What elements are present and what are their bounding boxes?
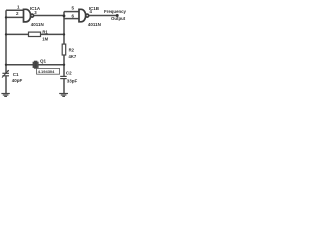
- svg-text:40pF: 40pF: [12, 78, 23, 83]
- svg-text:R2: R2: [69, 47, 75, 52]
- svg-text:4.194304: 4.194304: [38, 69, 55, 74]
- svg-text:1M: 1M: [42, 36, 48, 41]
- svg-text:C2: C2: [66, 71, 72, 76]
- svg-text:Frequency: Frequency: [104, 9, 127, 14]
- svg-text:R1: R1: [42, 29, 48, 34]
- svg-text:C1: C1: [13, 72, 19, 77]
- svg-text:IC1A: IC1A: [30, 6, 41, 11]
- svg-text:4011N: 4011N: [88, 22, 101, 27]
- svg-text:4011N: 4011N: [31, 22, 44, 27]
- svg-text:4K7: 4K7: [69, 54, 77, 59]
- svg-text:Output: Output: [111, 16, 126, 21]
- svg-text:Q1: Q1: [40, 58, 47, 63]
- svg-text:33pF: 33pF: [67, 79, 78, 84]
